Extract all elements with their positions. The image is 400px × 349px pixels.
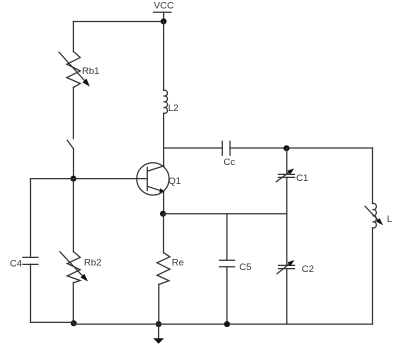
svg-text:Re: Re	[172, 258, 184, 269]
svg-text:L2: L2	[168, 103, 179, 114]
svg-text:C1: C1	[296, 173, 308, 184]
svg-text:Rb2: Rb2	[84, 258, 101, 269]
svg-text:VCC: VCC	[154, 1, 174, 12]
svg-text:C5: C5	[239, 262, 251, 273]
svg-text:C2: C2	[302, 264, 314, 275]
svg-text:Cc: Cc	[224, 157, 236, 168]
svg-text:Rb1: Rb1	[82, 66, 99, 77]
svg-text:L: L	[387, 214, 392, 225]
svg-text:Q1: Q1	[168, 176, 181, 187]
svg-text:C4: C4	[10, 259, 22, 270]
